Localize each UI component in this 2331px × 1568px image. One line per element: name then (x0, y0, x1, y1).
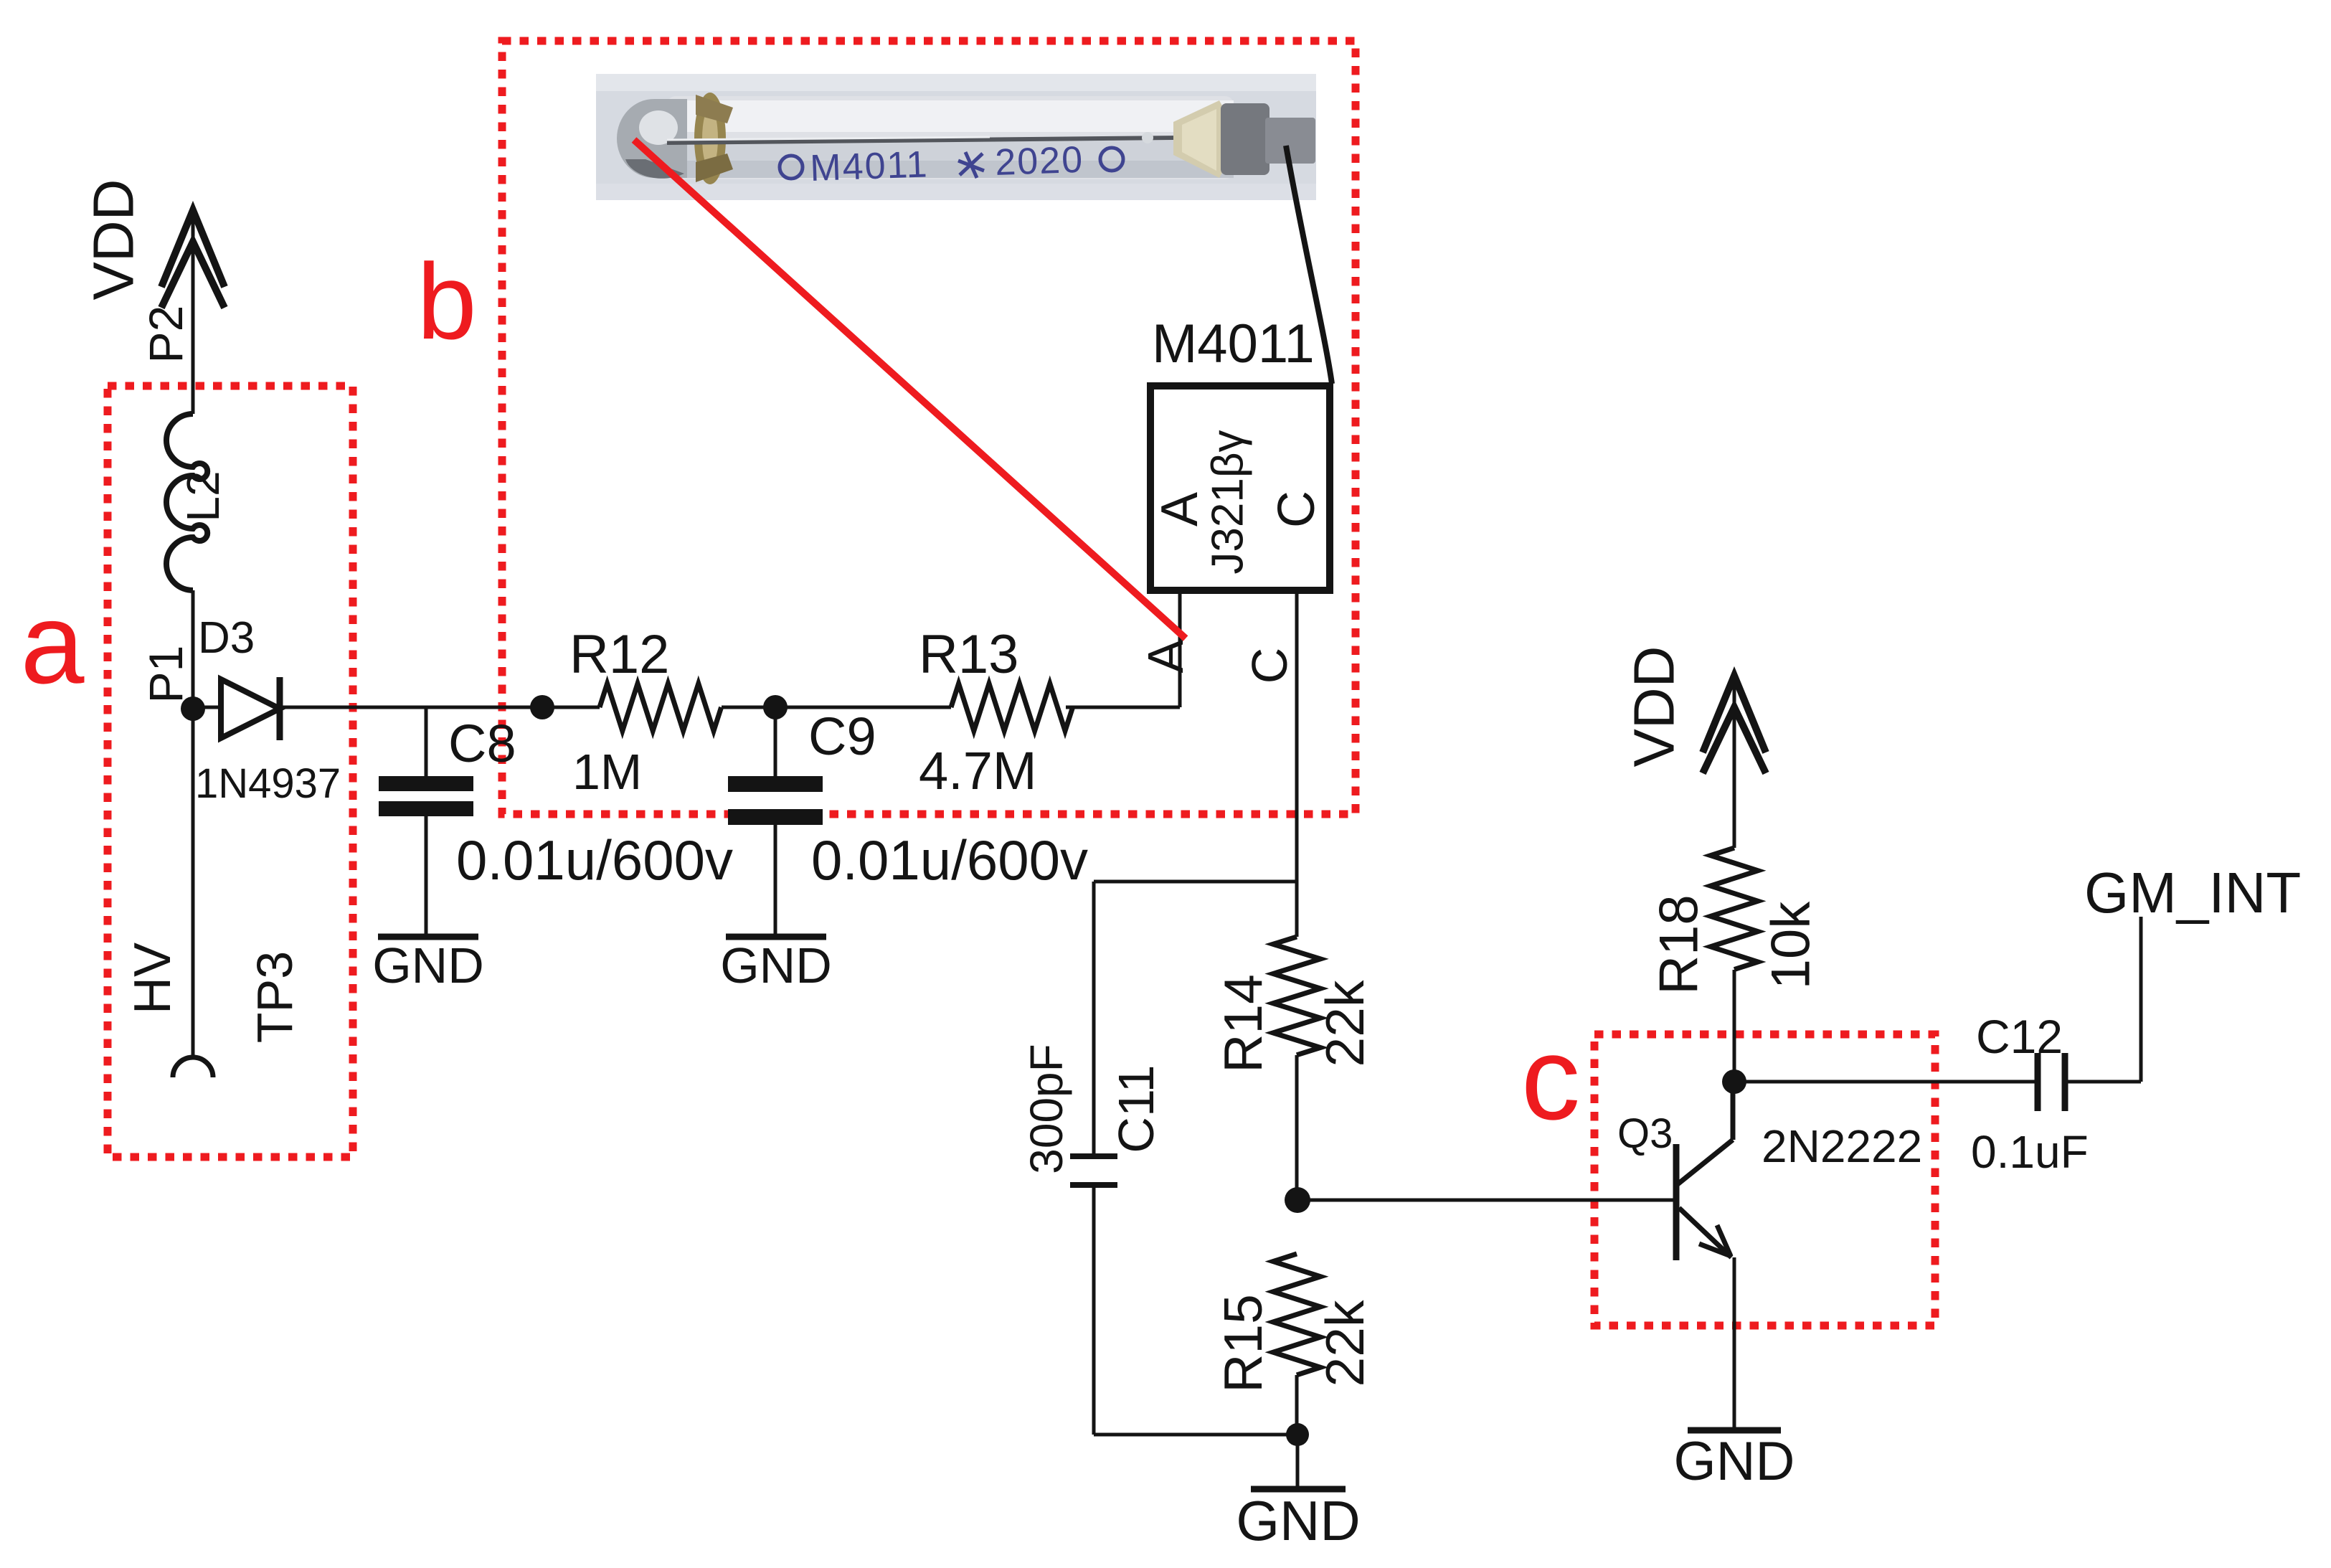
svg-text:M4011: M4011 (1152, 313, 1315, 374)
red dotted annotation box a (HV inductor/testpoint block) (108, 386, 353, 1157)
wire C12 up to GM_INT (2139, 917, 2143, 1082)
resistor R14 (1273, 937, 1320, 1055)
svg-text:C: C (1268, 491, 1325, 528)
svg-text:J321βγ: J321βγ (1204, 430, 1253, 574)
node base junction (1285, 1187, 1310, 1213)
svg-text:1N4937: 1N4937 (195, 760, 341, 807)
wire C11 bottom to GND node (1094, 1433, 1297, 1437)
wire R12 to R13 (722, 706, 951, 709)
node junction before R12 (530, 695, 554, 719)
wire cathode pin C down to R14 (1295, 590, 1299, 937)
wire collector node to C12 (1734, 1080, 2035, 1084)
resistor R15 (1273, 1254, 1320, 1375)
svg-text:4.7M: 4.7M (919, 741, 1037, 800)
photo of M4011 Geiger tube (596, 74, 1316, 200)
node collector junction (1722, 1069, 1746, 1094)
svg-text:C12: C12 (1976, 1010, 2063, 1063)
wire C-net branch to C11 (1094, 880, 1297, 884)
wire R15 to GND node (1295, 1375, 1299, 1435)
transistor Q3 2N2222 (1676, 1082, 1733, 1260)
ground (emitter) (1688, 1427, 1781, 1434)
svg-text:GND: GND (1236, 1489, 1360, 1552)
red dotted annotation box b (GM tube block) (502, 41, 1356, 814)
wire R13 to tube anode pin A (1066, 706, 1180, 709)
GM tube M4011 box (1150, 386, 1330, 590)
svg-text:GND: GND (372, 938, 484, 993)
svg-text:R15: R15 (1213, 1294, 1273, 1393)
svg-text:0.01u/600v: 0.01u/600v (456, 828, 733, 892)
wire L2 to node P1 (192, 590, 195, 709)
svg-text:1M: 1M (572, 744, 642, 800)
svg-text:10k: 10k (1761, 901, 1822, 990)
wire diode cathode to R12 (through C8 tap) (283, 706, 600, 709)
svg-text:0.1uF: 0.1uF (1971, 1126, 2089, 1178)
svg-text:P2: P2 (139, 306, 192, 364)
svg-text:300pF: 300pF (1021, 1044, 1072, 1173)
svg-text:c: c (1521, 1012, 1581, 1144)
resistor R12 (600, 684, 722, 731)
svg-text:R18: R18 (1649, 894, 1710, 994)
resistor R13 (951, 684, 1073, 731)
svg-text:C9: C9 (808, 707, 876, 766)
capacitor C9 (728, 707, 823, 937)
svg-text:22k: 22k (1315, 1300, 1375, 1387)
svg-text:2N2222: 2N2222 (1762, 1120, 1922, 1172)
svg-text:22k: 22k (1315, 980, 1375, 1067)
svg-text:R13: R13 (919, 624, 1018, 685)
diode D3 1N4937 (193, 677, 280, 740)
svg-text:D3: D3 (198, 613, 255, 663)
wire anode pin A (1178, 590, 1182, 707)
resistor R18 (1711, 848, 1758, 970)
ground (divider) (1251, 1486, 1346, 1493)
wire R14 to base node (1295, 1055, 1299, 1200)
ground under C9 (726, 934, 826, 940)
capacitor C8 (379, 707, 473, 937)
svg-text:GND: GND (720, 938, 832, 993)
power symbol VDD (right) (1622, 646, 1767, 848)
capacitor C12 0.1uF (2038, 1053, 2141, 1111)
svg-text:C8: C8 (448, 714, 516, 773)
svg-text:C11: C11 (1108, 1064, 1164, 1153)
svg-text:Q3: Q3 (1617, 1110, 1673, 1157)
svg-text:A: A (1151, 492, 1209, 526)
wire R18 to collector node (1733, 970, 1736, 1082)
power symbol VDD (left) (82, 179, 225, 414)
svg-text:VDD: VDD (82, 179, 146, 301)
black callout line tube photo to M4011 box (1286, 146, 1332, 384)
node GND junction (1286, 1423, 1309, 1446)
wire node P1 down to test point (192, 709, 195, 1056)
svg-text:a: a (21, 579, 85, 707)
svg-text:L2: L2 (177, 471, 229, 521)
svg-text:R12: R12 (569, 624, 669, 685)
red callout line tube photo to pin A (634, 140, 1186, 638)
inductor L2 (166, 414, 229, 590)
capacitor C11 300pF (1070, 882, 1117, 1435)
svg-text:M4011: M4011 (809, 143, 929, 189)
wire base node to Q3 base (1297, 1199, 1676, 1202)
svg-text:GM_INT: GM_INT (2084, 861, 2301, 925)
svg-text:TP3: TP3 (247, 951, 303, 1043)
wire emitter to ground (1733, 1257, 1736, 1430)
svg-text:GND: GND (1674, 1431, 1795, 1492)
node P1 junction (181, 696, 205, 721)
svg-text:2020: 2020 (994, 139, 1084, 184)
node C9 junction (763, 695, 788, 719)
svg-text:VDD: VDD (1622, 646, 1686, 768)
ground under C8 (378, 934, 478, 940)
wire node to ground (1296, 1435, 1300, 1489)
test point TP3 hook (173, 1057, 213, 1077)
svg-text:A: A (1138, 639, 1193, 673)
svg-text:P1: P1 (139, 646, 192, 704)
svg-text:b: b (417, 241, 476, 362)
red dotted annotation box c (transistor block) (1594, 1034, 1935, 1326)
svg-text:C: C (1242, 648, 1297, 684)
svg-text:0.01u/600v: 0.01u/600v (811, 828, 1088, 892)
svg-text:R14: R14 (1213, 974, 1273, 1073)
svg-text:HV: HV (124, 943, 181, 1014)
